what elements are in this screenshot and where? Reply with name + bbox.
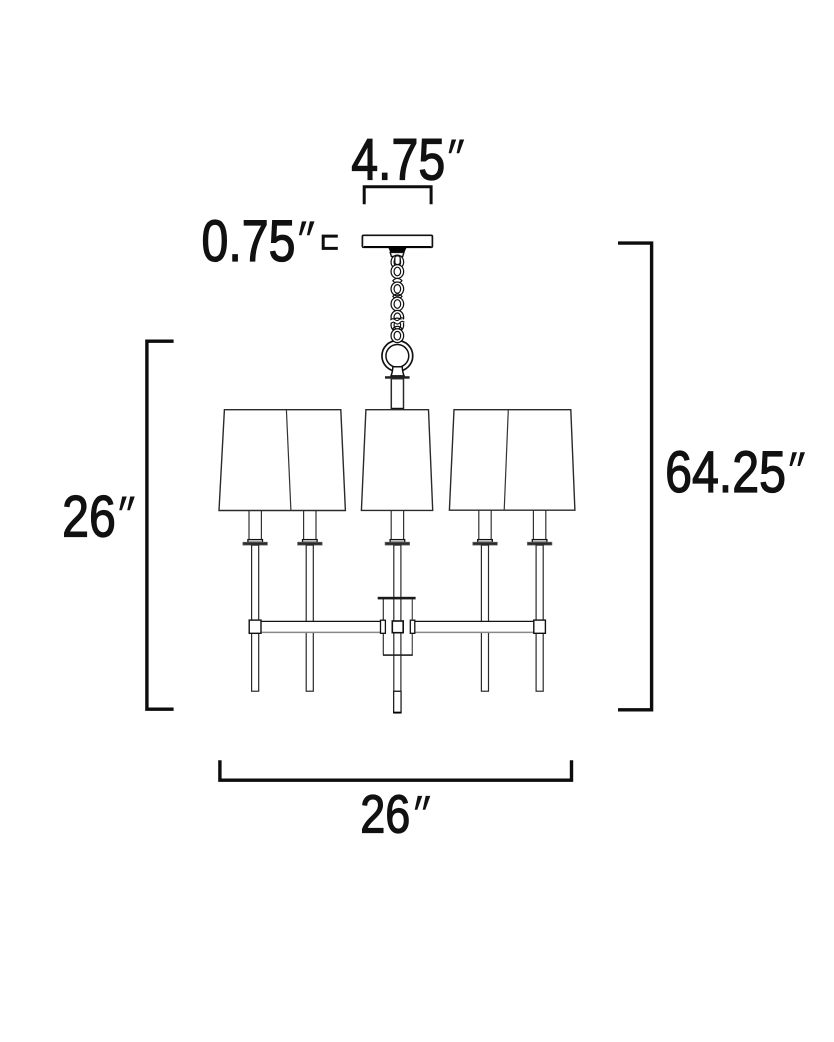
- arm rod x540: [536, 545, 543, 691]
- candle bottom ring x310: [303, 540, 318, 543]
- chain link 6 (cut by break): [391, 318, 404, 332]
- chain link 5 (cut by break): [391, 310, 404, 324]
- center shade: [361, 410, 432, 511]
- right arm end cap: [534, 620, 546, 633]
- left shade seam: [286, 410, 291, 511]
- candle sleeve x310: [304, 510, 316, 540]
- ceiling canopy: [362, 235, 432, 247]
- hanger frame bottom plate: [383, 654, 413, 656]
- dimension label 26" bottom: [360, 783, 430, 844]
- center rod tip: [394, 691, 401, 713]
- svg-text:0.75: 0.75: [202, 210, 296, 274]
- chain joint 4: [393, 326, 402, 331]
- chain link 2: [391, 265, 404, 279]
- chain joint 2: [393, 294, 402, 299]
- chain link 4: [391, 297, 404, 311]
- chain link 7 (over ring): [391, 329, 404, 343]
- dimension label 0.75": [202, 210, 315, 274]
- small bracket 0.75 (canopy height): [323, 236, 338, 248]
- hanger frame top plate: [378, 597, 416, 600]
- candle sleeve center: [391, 510, 403, 540]
- bottom dimension bracket 26: [220, 760, 572, 780]
- bobeche flange x485: [473, 542, 498, 545]
- svg-text:26: 26: [360, 783, 410, 844]
- bobeche flange x310: [298, 542, 323, 545]
- candle sleeve x540: [533, 510, 545, 540]
- bobeche flange x540: [527, 542, 552, 545]
- hanger frame left vertical: [382, 599, 384, 656]
- dimension label 4.75": [351, 128, 464, 192]
- dimension label 26" left: [62, 485, 135, 549]
- right shade pair: [449, 410, 575, 511]
- stem collar: [385, 376, 410, 379]
- left dimension bracket 26: [147, 341, 174, 709]
- chain break gap: [389, 320, 406, 323]
- chain clevis pin: [395, 256, 400, 265]
- svg-text:26: 26: [62, 485, 116, 549]
- left shade pair: [219, 410, 345, 511]
- chain link 1: [391, 255, 404, 269]
- finial neck below ring: [391, 367, 404, 376]
- candle sleeve x485: [479, 510, 491, 540]
- left arm end cap: [249, 620, 261, 633]
- candle bottom ring center: [390, 540, 405, 543]
- center-right cap: [410, 620, 415, 633]
- stem dark band: [391, 408, 403, 410]
- candle sleeve x255: [249, 510, 261, 540]
- stem tube: [391, 379, 403, 409]
- right arm bar: [412, 622, 545, 632]
- canopy collar (dark): [388, 247, 407, 253]
- center-left cap: [381, 620, 386, 633]
- bobeche flange center: [385, 542, 410, 545]
- chain loop fitting: [390, 252, 404, 256]
- arm rod x255: [252, 545, 259, 691]
- arm rod x485: [481, 545, 488, 691]
- candle bottom ring x540: [532, 540, 547, 543]
- chain link 3: [391, 282, 404, 296]
- svg-text:64.25: 64.25: [665, 441, 786, 505]
- chain joint 1: [393, 278, 402, 283]
- left arm bar: [249, 622, 383, 632]
- dimension label 64.25": [665, 441, 805, 505]
- arm rod center: [394, 545, 401, 691]
- svg-text:4.75: 4.75: [351, 128, 445, 192]
- right shade seam: [504, 410, 508, 511]
- center hub block: [392, 621, 403, 633]
- arm rod x310: [306, 545, 313, 691]
- hanger frame right vertical: [411, 599, 413, 656]
- candle bottom ring x485: [478, 540, 493, 543]
- right dimension bracket 64.25: [618, 243, 652, 710]
- hanging ring outer: [382, 341, 413, 372]
- chain joint 3: [393, 310, 402, 315]
- top dimension bracket 4.75: [364, 187, 431, 205]
- bobeche flange x255: [243, 542, 268, 545]
- hanging ring inner: [386, 345, 409, 368]
- candle bottom ring x255: [248, 540, 263, 543]
